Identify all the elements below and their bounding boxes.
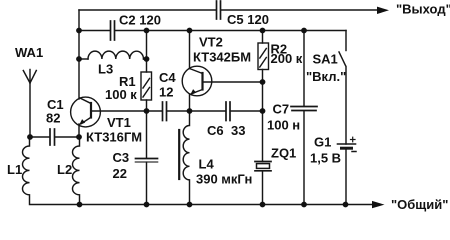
svg-text:C3: C3 — [113, 150, 130, 165]
svg-text:"Вкл.": "Вкл." — [306, 69, 346, 84]
svg-text:VT2: VT2 — [199, 35, 223, 50]
svg-text:390 мкГн: 390 мкГн — [196, 172, 252, 187]
svg-text:C6: C6 — [207, 123, 224, 138]
svg-text:12: 12 — [159, 85, 173, 100]
svg-text:100 к: 100 к — [105, 87, 137, 102]
svg-text:"Выход": "Выход" — [396, 2, 450, 17]
svg-text:КТ342БМ: КТ342БМ — [193, 50, 251, 65]
svg-text:L3: L3 — [98, 62, 113, 77]
svg-text:L1: L1 — [7, 162, 22, 177]
svg-text:"Общий": "Общий" — [391, 197, 448, 212]
svg-text:22: 22 — [113, 166, 127, 181]
svg-text:200 к: 200 к — [271, 51, 303, 66]
svg-text:VT1: VT1 — [107, 115, 131, 130]
svg-text:ZQ1: ZQ1 — [271, 146, 296, 161]
svg-text:C7: C7 — [273, 102, 290, 117]
svg-text:100 н: 100 н — [267, 118, 300, 133]
svg-text:L4: L4 — [199, 157, 215, 172]
svg-text:WA1: WA1 — [15, 45, 43, 60]
svg-text:82: 82 — [46, 111, 60, 126]
svg-text:C2 120: C2 120 — [119, 13, 161, 28]
svg-text:SA1: SA1 — [313, 52, 338, 67]
svg-text:C5 120: C5 120 — [227, 12, 269, 27]
svg-text:L2: L2 — [57, 162, 72, 177]
svg-text:1,5 В: 1,5 В — [310, 151, 341, 166]
svg-text:G1: G1 — [314, 135, 331, 150]
svg-text:33: 33 — [231, 123, 245, 138]
svg-text:C4: C4 — [159, 70, 176, 85]
svg-text:КТ316ГМ: КТ316ГМ — [86, 130, 142, 145]
